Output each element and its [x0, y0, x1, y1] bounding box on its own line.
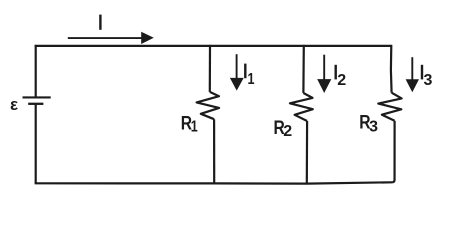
svg-text:1: 1 — [248, 71, 255, 88]
resistor R1 zigzag — [197, 92, 220, 119]
wire left vertical upper (battery positive lead) — [35, 45, 37, 98]
label I (top current) — [99, 15, 101, 30]
label R3 — [359, 112, 378, 135]
svg-text:2: 2 — [337, 72, 346, 89]
label I1 — [244, 64, 254, 88]
resistor R3 bottom wire — [392, 121, 395, 183]
current arrow I3 — [406, 57, 419, 92]
resistor R1 branch: top wire — [209, 45, 211, 92]
wire left vertical lower (battery negative lead) — [35, 104, 37, 184]
wire top rail — [35, 45, 392, 47]
resistor R1 bottom wire — [213, 119, 215, 183]
svg-text:2: 2 — [283, 123, 292, 140]
svg-text:3: 3 — [424, 72, 433, 89]
resistor R2 bottom wire — [306, 121, 309, 184]
label ε (EMF) — [10, 95, 18, 114]
label I3 — [421, 65, 433, 89]
current arrow I2 — [317, 55, 331, 93]
label R1 — [181, 113, 198, 135]
current arrow I (top) — [68, 32, 154, 44]
resistor R3 branch: wire from top-right corner — [390, 45, 393, 93]
resistor R2 zigzag — [290, 93, 313, 121]
svg-text:3: 3 — [369, 118, 378, 135]
resistor R3 zigzag — [378, 93, 401, 121]
resistor R2 branch: top wire — [302, 45, 305, 93]
svg-text:ε: ε — [10, 95, 18, 114]
label I2 — [335, 65, 347, 89]
label R2 — [274, 118, 293, 140]
svg-text:1: 1 — [191, 119, 198, 136]
wire bottom rail — [35, 182, 393, 183]
battery EMF source: long plate — [23, 96, 51, 98]
battery EMF source: short plate — [28, 103, 43, 105]
current arrow I1 — [230, 54, 244, 90]
